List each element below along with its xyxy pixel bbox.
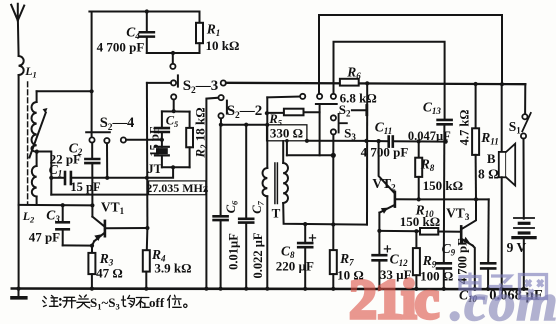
watermark hanzi dian (460, 273, 485, 299)
svg-text:off: off (149, 295, 165, 310)
wire stub to S2-3 top terminal (172, 53, 174, 64)
capacitor C3 (56, 205, 68, 245)
watermark hanzi wang (520, 275, 547, 299)
wire y199 (419, 198, 489, 200)
switch trio terminals (300, 94, 305, 99)
note hanzi wei (168, 295, 182, 307)
resistor R5 (267, 109, 319, 116)
wire T secondary bottom (283, 203, 367, 225)
wire top loop outer (319, 15, 502, 94)
note hanzi jun (122, 296, 135, 308)
capacitor C2 (85, 143, 99, 164)
node rail speaker (500, 82, 504, 86)
note hanzi guan (77, 295, 90, 308)
wire blade leg down (319, 104, 321, 155)
transformer T core (275, 163, 278, 204)
svg-text:VT1: VT1 (101, 200, 125, 217)
resistor R3 (88, 246, 95, 289)
label box 330 ohm (267, 125, 307, 141)
node R7 line crossing (331, 222, 335, 226)
node on C1 line (105, 176, 109, 180)
transistor VT2 (379, 141, 419, 231)
capacitor C7 (239, 125, 253, 289)
svg-text:330 Ω: 330 Ω (270, 126, 303, 141)
svg-text:R11: R11 (480, 130, 499, 147)
svg-text:R6: R6 (346, 65, 361, 82)
capacitor C6 (214, 125, 228, 289)
svg-text:150 kΩ: 150 kΩ (400, 214, 440, 229)
svg-text:C13: C13 (423, 100, 442, 117)
battery 9V (513, 218, 535, 289)
wire antenna lead (17, 21, 20, 57)
svg-text:C7: C7 (250, 200, 266, 213)
switch S2 push blade (339, 114, 347, 132)
svg-text:S2—4: S2—4 (100, 115, 135, 133)
resistor R8 (415, 141, 422, 199)
wire antenna line down to ground rail (18, 75, 20, 289)
svg-text:C8: C8 (281, 244, 295, 261)
node C1 left junction (49, 176, 53, 180)
svg-text:VT2: VT2 (372, 176, 396, 193)
node rail141 right (364, 139, 368, 143)
svg-text:R2 18 kΩ: R2 18 kΩ (193, 107, 210, 158)
resistor R6 (340, 79, 359, 86)
note hanzi kai (63, 297, 76, 308)
switch S2-2 contacts (219, 95, 224, 100)
wire tank top (37, 90, 92, 92)
note S1-S3 off text (90, 295, 165, 312)
resistor R7 (330, 250, 337, 289)
svg-text:L2: L2 (22, 209, 35, 225)
wire T secondary top lead (282, 141, 284, 163)
capacitor C4 (140, 12, 154, 54)
wire L2 top lead (36, 91, 38, 102)
core dashed line (27, 82, 29, 204)
node C5 crystal tap (160, 138, 164, 142)
wire base line L2 to VT1 (19, 204, 93, 207)
wire top rail C4 R1 (89, 11, 199, 13)
switch S2-3 blade (177, 75, 179, 86)
watermark hanzi zi (489, 276, 513, 299)
switch trio blade (316, 103, 337, 105)
svg-text:47 Ω: 47 Ω (96, 266, 123, 281)
resistor R10 (420, 228, 461, 235)
node S2-2 bottom junction (219, 123, 223, 127)
svg-text:4.7 kΩ: 4.7 kΩ (458, 110, 472, 146)
svg-text:C12: C12 (390, 252, 409, 269)
node C8 top (303, 222, 307, 226)
wire crystal network top (162, 110, 190, 112)
svg-text:47 pF: 47 pF (29, 230, 60, 245)
wire x267 vertical (266, 97, 268, 168)
wire bottom ground rail (12, 287, 527, 290)
svg-text:4 700 pF: 4 700 pF (361, 145, 409, 160)
wire main rail (226, 83, 525, 84)
node crystal network top (172, 109, 176, 113)
svg-text:B: B (487, 151, 496, 166)
svg-text:S2—3: S2—3 (183, 78, 219, 96)
wire L2 bottom to base line (36, 197, 38, 205)
svg-text:R1: R1 (206, 22, 221, 39)
node crystal bottom junction (171, 165, 175, 169)
svg-text:C11: C11 (375, 120, 393, 137)
note period (184, 304, 187, 307)
wire C4 R1 bottom (147, 52, 200, 54)
switch S1 (521, 84, 531, 218)
crystal JT (155, 147, 169, 168)
node C13 line crossing (444, 140, 448, 144)
node y125 right junction (265, 123, 269, 127)
node rail junctions (16, 287, 526, 292)
svg-text:9 V: 9 V (507, 240, 527, 255)
note hanzi zhu (43, 296, 58, 307)
wire L2 mid link (36, 152, 38, 166)
svg-text:R8: R8 (420, 157, 435, 174)
svg-text:R9: R9 (422, 253, 437, 270)
switch S2-3 terminal top (170, 64, 175, 69)
switch S2-4 terminals (89, 137, 94, 142)
switch S2-3 contact circles column (171, 80, 176, 85)
node VT2 emitter bottom (377, 229, 381, 233)
svg-text:C5: C5 (166, 114, 179, 130)
node R5 left junction (265, 111, 269, 115)
svg-text:L1: L1 (24, 64, 37, 80)
svg-text:C3: C3 (46, 208, 60, 225)
svg-text:3.9 kΩ: 3.9 kΩ (154, 261, 191, 276)
resistor R9 (413, 231, 420, 289)
capacitor C8 polarized (298, 224, 315, 289)
svg-text:JT: JT (147, 162, 162, 176)
wire S2-3 middle contact to x147 vertical (147, 82, 171, 84)
arrow variable inductor (30, 113, 46, 158)
capacitor C13 (438, 120, 452, 124)
node coil tap (35, 150, 39, 154)
svg-text:4 700 pF: 4 700 pF (97, 40, 145, 55)
node rail x367 (365, 81, 369, 85)
inductor L1 (19, 56, 24, 75)
resistor R11 (472, 84, 479, 199)
node rail R11 (474, 82, 478, 86)
node x147 on C1 wire (145, 176, 149, 180)
svg-text:0.01µF: 0.01µF (227, 233, 241, 270)
svg-text:C9: C9 (442, 241, 456, 258)
wire leg from 330 box (286, 141, 288, 156)
node tank top junction (90, 89, 94, 93)
wire bus y125 (221, 124, 267, 126)
svg-text:15 pF: 15 pF (147, 126, 161, 157)
svg-text:27.035 MHz: 27.035 MHz (146, 181, 209, 195)
node VT1 emitter junction (90, 244, 94, 248)
capacitor C5 (155, 111, 169, 146)
wire y231 R10 row (379, 230, 420, 232)
transistor VT3 (461, 199, 476, 289)
wire S2-2 upper contact left (206, 98, 218, 289)
wire coil tap to C1 column (37, 152, 52, 195)
switch S2 push contacts (331, 115, 336, 120)
inductor L2 upper section (32, 102, 37, 152)
node VT3 collector top (474, 197, 478, 201)
svg-text:VT3: VT3 (446, 206, 470, 223)
wire rail141 (307, 140, 367, 142)
wire C3 to VT1 emitter (63, 244, 92, 246)
note hanzi zai (136, 298, 149, 308)
inductor L2 lower section (32, 166, 37, 197)
node C7 top (244, 123, 248, 127)
wire C1 right to crystal bottom jog (71, 167, 173, 178)
node VT1 collector junction (145, 226, 149, 230)
svg-text:S2—2: S2—2 (227, 103, 263, 121)
wire S3 branch down to R7 (332, 155, 334, 250)
node VT2 base R8 (417, 197, 421, 201)
svg-text:150 kΩ: 150 kΩ (423, 178, 463, 193)
svg-text:21ic: 21ic (349, 269, 439, 324)
resistor R1 (196, 12, 203, 54)
node 330 box corner (305, 139, 309, 143)
capacitor C10 (481, 199, 495, 289)
resistor R4 (143, 228, 150, 289)
transistor VT1 (92, 205, 147, 245)
svg-text:0.047µF: 0.047µF (408, 129, 451, 143)
svg-text:C6: C6 (224, 200, 240, 213)
capacitor C9 (437, 263, 451, 289)
wire feedback lower (51, 194, 147, 196)
node C4 top junction (145, 9, 149, 13)
wire left vertical to S2-4 (91, 12, 93, 138)
node y155 right (331, 153, 336, 158)
node VT2 collector top (377, 139, 381, 143)
svg-text:S1: S1 (509, 119, 522, 136)
label box 27.035 MHz (149, 181, 206, 195)
node S2-3 feed junction (171, 51, 175, 55)
node legA top (285, 139, 289, 143)
wire C2 bottom to VT1 base node (91, 163, 93, 205)
svg-text:S3: S3 (344, 126, 356, 143)
svg-text:10 kΩ: 10 kΩ (206, 38, 240, 53)
wire S2-4 right contact to crystal tap (126, 139, 162, 141)
speaker B (499, 84, 515, 289)
svg-text:T: T (272, 206, 281, 221)
node R8 top (417, 139, 421, 143)
wire S2 tie to x367 (352, 109, 367, 111)
switch S2-2 blade (226, 101, 228, 114)
svg-text:8 Ω: 8 Ω (478, 167, 499, 182)
wire S2-3 lower contact to crystal top (173, 100, 175, 112)
switch S2-4 blade (86, 131, 110, 133)
svg-text:15 pF: 15 pF (70, 180, 101, 194)
transformer T secondary winding (283, 163, 288, 203)
switch S2-3 right terminal (221, 80, 226, 85)
ground symbol (12, 289, 26, 298)
wire top loop inner (334, 42, 445, 120)
svg-text:R7: R7 (339, 251, 354, 268)
resistor R2 (186, 112, 193, 168)
node C3 top (61, 203, 65, 207)
node R9 top (414, 229, 418, 233)
wire y155 (287, 154, 333, 156)
transformer T primary winding (263, 168, 268, 196)
capacitor C12 polarized (373, 231, 391, 289)
capacitor C1 (51, 172, 71, 184)
wire S3 contact down (332, 135, 334, 156)
wire x147 vertical to VT1 collector (146, 83, 149, 228)
note colon (59, 299, 62, 304)
capacitor C11 (366, 137, 445, 147)
wire T primary down to rail (266, 196, 268, 288)
node VT1 base top (90, 203, 94, 207)
wire R5 feed from switch (267, 96, 300, 99)
svg-text:0.022 µF: 0.022 µF (251, 232, 265, 278)
wire crystal network bottom (162, 166, 190, 168)
svg-text:S1~S3: S1~S3 (90, 295, 120, 312)
antenna (11, 4, 24, 21)
wire S2-2 lower contact down (220, 118, 222, 124)
wire C13 C9 vertical (443, 124, 446, 263)
wire x367 vertical (366, 83, 368, 224)
switch S2 contact bar (365, 106, 368, 115)
wire S2-4 mid contact down (106, 143, 108, 178)
svg-text:220 µF: 220 µF (276, 259, 314, 274)
